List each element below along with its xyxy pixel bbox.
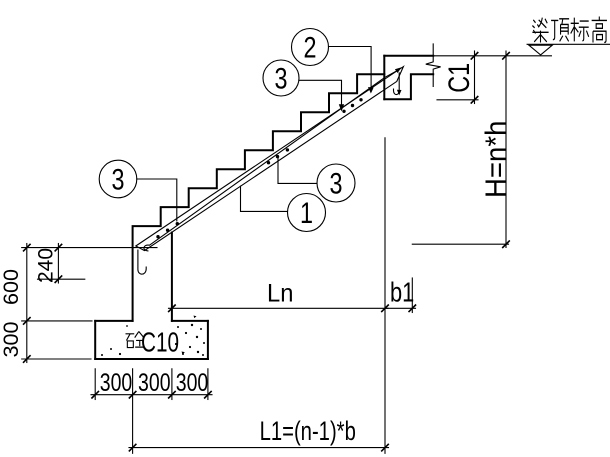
dim 300x3 line bbox=[91, 394, 212, 396]
witness L1 left bbox=[132, 369, 134, 454]
tick 300 row 4 bbox=[204, 391, 212, 399]
dim left chain line (600/300) bbox=[26, 244, 28, 363]
svg-text:300: 300 bbox=[176, 369, 209, 397]
svg-text:1: 1 bbox=[300, 196, 313, 229]
elevation mark triangle bbox=[529, 45, 552, 55]
svg-text:Ln: Ln bbox=[267, 280, 293, 308]
tick H top bbox=[502, 52, 510, 60]
leader from circle 3 right bbox=[278, 159, 317, 184]
witness foundation top left bbox=[22, 320, 92, 322]
distribution bar dots group 1 bbox=[156, 222, 179, 238]
tick 240 top bbox=[55, 244, 63, 252]
tick left chain middle bbox=[23, 317, 31, 325]
leader from circle 2 bbox=[329, 47, 372, 89]
svg-text:b1: b1 bbox=[390, 277, 414, 308]
dim L1 line bbox=[129, 447, 389, 449]
witness line right of Ln (long) bbox=[384, 138, 386, 454]
distribution bar dots group 2 bbox=[267, 148, 289, 164]
witness 300 b bbox=[171, 369, 173, 400]
landing soffit bbox=[384, 74, 433, 99]
beam top level line (thick part) bbox=[384, 55, 433, 57]
tick Ln right / b1 left bbox=[381, 305, 389, 313]
stair slab band outline bbox=[136, 67, 404, 251]
witness 300 c bbox=[207, 369, 209, 400]
tick b1 right bbox=[409, 305, 417, 313]
callout circle 2 bbox=[292, 29, 329, 66]
rebar arrow at top tip bbox=[395, 67, 402, 73]
foundation left edge bbox=[94, 321, 96, 359]
concrete hatch speckles in foundation bbox=[101, 316, 205, 357]
tick L1 left bbox=[129, 444, 137, 452]
tick 240 bottom bbox=[55, 275, 63, 283]
svg-text:300: 300 bbox=[138, 369, 171, 397]
wall right edge bbox=[171, 233, 173, 321]
tick 300 row 2 bbox=[129, 391, 137, 399]
tick C1 top bbox=[471, 52, 479, 60]
main rebar 1 line bbox=[144, 71, 398, 251]
tick C1 bottom bbox=[471, 96, 479, 104]
svg-text:240: 240 bbox=[35, 248, 58, 283]
hanzi Biao (mark) bbox=[571, 18, 589, 42]
svg-text:3: 3 bbox=[111, 163, 124, 196]
dim H line bbox=[505, 51, 507, 248]
break line at beam bbox=[426, 44, 441, 87]
svg-text:300: 300 bbox=[100, 369, 133, 397]
hanzi Liang (beam) bbox=[532, 18, 548, 43]
stair steps outline bbox=[133, 56, 385, 321]
foundation right edge bbox=[207, 321, 209, 359]
callout circle 3 right bbox=[317, 164, 355, 202]
svg-text:300: 300 bbox=[0, 321, 23, 357]
svg-text:H=n*h: H=n*h bbox=[480, 121, 513, 198]
dim C1 line bbox=[474, 51, 476, 104]
tick 300 row 3 bbox=[168, 391, 176, 399]
rebar hook at top (bent into beam) bbox=[394, 73, 400, 95]
tick H bottom bbox=[502, 240, 510, 248]
dim C1 bottom extension bbox=[437, 99, 478, 101]
svg-text:C10: C10 bbox=[141, 328, 179, 359]
dim b1 line bbox=[385, 307, 416, 309]
hanzi Gao (height) bbox=[592, 17, 607, 43]
svg-text:L1=(n-1)*b: L1=(n-1)*b bbox=[260, 416, 356, 447]
callout circle 1 bbox=[288, 194, 326, 232]
foundation top left segment bbox=[95, 320, 132, 322]
witness 300 a bbox=[94, 369, 96, 400]
tick Ln left bbox=[168, 305, 176, 313]
elevation text underline bbox=[527, 43, 609, 45]
svg-text:2: 2 bbox=[303, 31, 316, 64]
leader from circle 1 bbox=[241, 186, 288, 211]
svg-text:3: 3 bbox=[329, 167, 342, 200]
svg-text:C1: C1 bbox=[442, 63, 475, 93]
dim Ln line bbox=[169, 307, 389, 309]
svg-text:3: 3 bbox=[274, 62, 287, 95]
beam top level line (thin part) bbox=[433, 55, 551, 57]
callout circle 3 upper bbox=[263, 60, 299, 96]
foundation top right segment bbox=[172, 320, 208, 322]
svg-text:600: 600 bbox=[0, 269, 23, 305]
hanzi Ding (top) bbox=[551, 19, 569, 42]
tick left chain top bbox=[23, 244, 31, 252]
hanzi Tong (concrete) bbox=[126, 331, 145, 347]
distribution bar dots group 3 bbox=[342, 98, 362, 113]
tick 300 row 1 bbox=[91, 391, 99, 399]
tick left chain bottom bbox=[23, 355, 31, 363]
landing beam left edge bbox=[383, 74, 385, 99]
dimension tick marks bbox=[23, 52, 510, 451]
tick L1 right bbox=[381, 444, 389, 452]
dim H bottom extension bbox=[412, 243, 508, 245]
witness foundation bottom left bbox=[22, 358, 91, 360]
dim 240 line bbox=[57, 244, 59, 284]
leader from circle 3 upper bbox=[299, 80, 342, 105]
callout circle 3 left bbox=[99, 160, 137, 198]
witness floor level left bbox=[22, 247, 157, 249]
witness line b1 right bbox=[411, 278, 413, 313]
rebar hook bar at bottom (into wall) bbox=[138, 250, 146, 274]
witness 240 bottom bbox=[38, 278, 85, 280]
leader from circle 3 left bbox=[137, 179, 177, 221]
foundation bottom edge bbox=[95, 358, 208, 360]
